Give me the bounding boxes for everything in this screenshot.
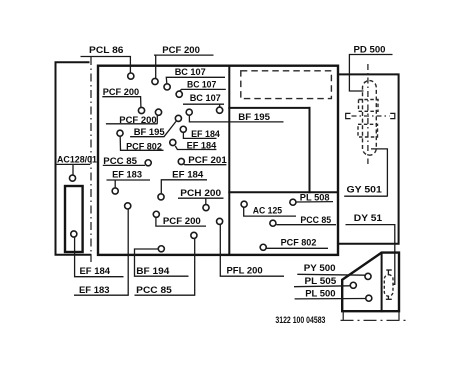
PD 500 pointer xyxy=(349,55,392,92)
svg-text:EF 183: EF 183 xyxy=(79,285,110,296)
PCF 200 top pointer xyxy=(154,55,214,78)
socket PCF 200 inner third xyxy=(153,211,159,217)
DY51 mini tube top bar xyxy=(386,269,392,271)
PY 500 pointer xyxy=(297,273,365,276)
socket PCF 201 xyxy=(178,158,184,164)
svg-text:PCF 200: PCF 200 xyxy=(162,45,200,56)
socket PY 500 xyxy=(365,273,371,279)
socket EF 184 third xyxy=(158,194,164,200)
corner box left foot xyxy=(342,311,344,320)
inner vertical divider xyxy=(228,66,230,255)
BC 107 first pointer xyxy=(166,77,225,83)
BF 195 box pointer xyxy=(189,116,283,122)
dashed shield rectangle xyxy=(241,71,332,99)
svg-text:EF 184: EF 184 xyxy=(172,170,204,181)
corner box right foot xyxy=(398,311,400,320)
socket AC 125 xyxy=(241,201,247,207)
socket BC 107 second xyxy=(176,91,182,97)
EHT tube lower dashed electrode rectangle xyxy=(358,124,378,137)
PFL 200 pointer xyxy=(220,225,284,276)
svg-text:PFL 200: PFL 200 xyxy=(227,265,263,276)
socket PCH 200 xyxy=(203,205,209,211)
BC 107 second pointer xyxy=(180,89,226,91)
socket PCF 802 xyxy=(117,130,123,136)
svg-text:AC 125: AC 125 xyxy=(253,206,283,217)
svg-text:PCC 85: PCC 85 xyxy=(136,285,172,296)
svg-text:GY 501: GY 501 xyxy=(347,184,383,195)
svg-text:PL 500: PL 500 xyxy=(305,289,335,300)
PCF 200 inner second pointer xyxy=(106,116,158,124)
EF 184 third pointer xyxy=(161,180,207,194)
EF 184 second pointer xyxy=(175,146,216,150)
EF 183 bottom pointer xyxy=(74,210,128,296)
EHT tube dash-dot vertical centerline xyxy=(367,64,369,164)
svg-text:PL 505: PL 505 xyxy=(305,276,337,287)
socket BF 195 inner xyxy=(175,115,181,121)
socket PCF 200 top xyxy=(152,78,158,84)
svg-text:BC 107: BC 107 xyxy=(175,67,206,78)
DY51 mini tube top stem xyxy=(387,270,389,275)
PL 500 pointer xyxy=(295,298,366,300)
EHT tube dash-dot horizontal centerline xyxy=(352,115,390,117)
EHT tube dashed outline xyxy=(363,81,377,156)
AC128/01 pointer xyxy=(56,164,90,174)
svg-text:BF 194: BF 194 xyxy=(136,266,170,277)
svg-text:BC 107: BC 107 xyxy=(190,93,221,104)
DY51 mini tube bottom stem xyxy=(387,296,389,299)
power corner box divider xyxy=(381,253,383,312)
svg-text:PCF 802: PCF 802 xyxy=(281,237,317,248)
EF 183 inner pointer xyxy=(107,180,151,187)
dash-dot panel split line xyxy=(90,57,92,262)
PCF 802 pointer xyxy=(120,137,163,151)
DY 51 pointer xyxy=(346,225,395,285)
PCL 86 pointer xyxy=(81,57,131,73)
PCF 200 inner third pointer xyxy=(156,218,206,226)
PCH 200 pointer xyxy=(178,198,224,204)
PCC 85 inner pointer xyxy=(103,164,145,166)
socket EF 183 long drop xyxy=(125,203,131,209)
chassis dash-dot baseline xyxy=(341,319,407,321)
main chassis box xyxy=(98,66,338,255)
socket EF 184 second xyxy=(170,139,176,145)
EHT tube right end bracket xyxy=(390,113,395,118)
PCC 85 bottom-right pointer xyxy=(277,224,337,226)
IF sub-box BF195 top edge xyxy=(229,107,309,109)
svg-text:EF 183: EF 183 xyxy=(112,170,142,181)
PCC 85 bottom pointer xyxy=(135,239,196,295)
socket PCF 200 inner first xyxy=(138,107,144,113)
socket EF 184 first xyxy=(180,126,186,132)
socket EF 183 inner xyxy=(112,188,118,194)
socket in AC128/01 rectangle xyxy=(71,231,77,237)
socket PCF 200 inner second xyxy=(155,109,161,115)
socket PL 500 xyxy=(366,295,372,301)
BC 107 third pointer xyxy=(183,104,224,106)
socket PCC 85 bottom-right xyxy=(270,220,276,226)
right column box (EHT cage) xyxy=(338,74,399,243)
socket PL 508 xyxy=(290,199,296,205)
bottom-right box top edge xyxy=(229,191,338,193)
socket PFL 200 xyxy=(217,218,223,224)
transistor AC128/01 mounting rectangle xyxy=(65,186,83,252)
svg-text:EF 184: EF 184 xyxy=(80,266,111,277)
EHT tube left end bracket xyxy=(346,113,351,118)
DY51 mini tube dashed body xyxy=(384,275,393,297)
PL 508 pointer xyxy=(296,201,333,203)
svg-text:PCL 86: PCL 86 xyxy=(89,45,124,56)
socket PL 505 xyxy=(350,282,356,288)
EF 184 first pointer xyxy=(183,133,216,139)
PCF 200 inner first pointer xyxy=(102,97,141,107)
PCF 201 pointer xyxy=(184,163,226,166)
EF 184 bottom pointer xyxy=(75,238,124,277)
socket PCL 86 xyxy=(128,73,134,79)
socket BC 107 third xyxy=(217,107,223,113)
BF 195 inner pointer xyxy=(130,121,176,136)
power corner box xyxy=(342,253,399,312)
socket PCC 85 bottom xyxy=(191,232,197,238)
left narrow panel box xyxy=(56,62,91,255)
socket BF 194 xyxy=(158,246,164,252)
GY 501 underline xyxy=(344,195,388,197)
svg-text:PCH 200: PCH 200 xyxy=(180,188,221,199)
socket BC 107 first xyxy=(164,84,170,90)
socket PCC 85 inner xyxy=(145,160,151,166)
svg-text:DY 51: DY 51 xyxy=(354,213,383,224)
socket PCF 802 bottom-right xyxy=(260,244,266,250)
GY 501 pointer xyxy=(371,149,387,196)
AC 125 pointer xyxy=(244,207,296,216)
BF 194 pointer xyxy=(135,249,189,276)
svg-text:PY 500: PY 500 xyxy=(304,263,336,274)
EHT tube upper dashed electrode rectangle xyxy=(359,100,379,112)
PL 505 pointer xyxy=(294,285,350,288)
IF sub-box BF195 right edge xyxy=(309,108,311,192)
socket AC128/01 xyxy=(69,175,75,181)
PCF 802 bottom-right pointer xyxy=(267,247,329,249)
DY51 mini tube bottom bar xyxy=(386,298,392,300)
socket BF 195 box xyxy=(186,109,192,115)
svg-text:3122 100 04583: 3122 100 04583 xyxy=(275,315,325,326)
